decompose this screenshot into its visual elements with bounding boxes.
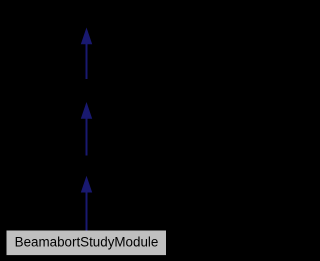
inheritance arrow 1 (to top node) <box>82 29 92 79</box>
inheritance arrow 2 <box>82 104 92 156</box>
svg-text:BeamabortStudyModule: BeamabortStudyModule <box>15 235 159 250</box>
node BeamabortStudyModule (current class, grey box) <box>7 231 167 256</box>
node box 1 (top ancestor, black on black) <box>43 1 130 28</box>
inheritance arrow 3 (from BeamabortStudyModule) <box>82 177 92 231</box>
node box 2 (black on black) <box>43 80 130 103</box>
node box 3 (black on black) <box>43 156 130 176</box>
